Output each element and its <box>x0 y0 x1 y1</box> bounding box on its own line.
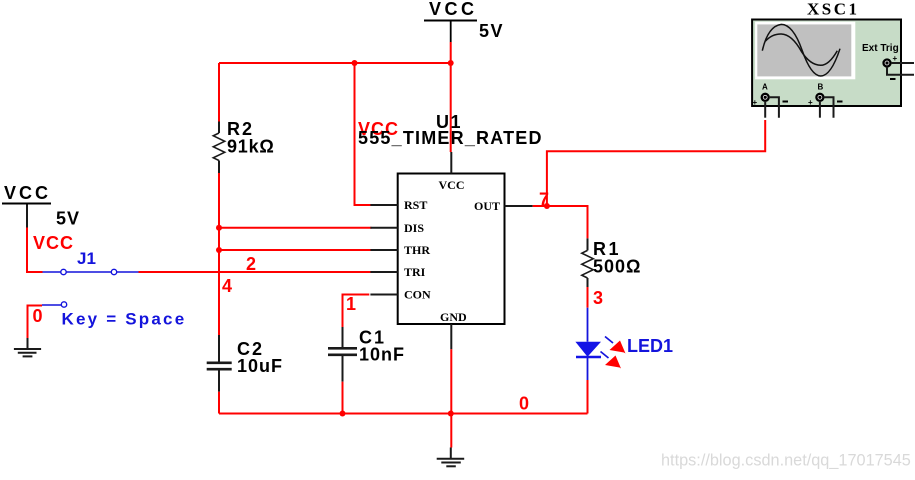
wire U1 GND pin <box>450 349 452 447</box>
svg-text:Key = Space: Key = Space <box>62 310 187 329</box>
LED LED1 <box>575 308 673 380</box>
svg-text:500Ω: 500Ω <box>593 257 641 277</box>
terminal Ext Trig <box>884 60 891 67</box>
svg-text:1: 1 <box>346 294 356 314</box>
resistor R2 <box>213 63 274 173</box>
svg-text:0: 0 <box>519 394 529 414</box>
node junction OUT/scope <box>544 203 550 209</box>
wire vertical to C2 <box>218 228 220 335</box>
svg-text:DIS: DIS <box>404 221 424 235</box>
svg-text:RST: RST <box>404 198 427 212</box>
wire RST net 4 <box>355 63 372 205</box>
svg-text:5V: 5V <box>479 21 504 41</box>
svg-text:4: 4 <box>222 276 232 296</box>
wire R1 bottom net 3 <box>587 287 589 308</box>
svg-text:B: B <box>818 83 824 92</box>
wire CON net 1 <box>343 295 370 328</box>
terminal B <box>816 94 823 101</box>
power VCC top <box>424 0 504 42</box>
node junction THR <box>216 247 222 253</box>
node junction GND/net0 <box>448 411 454 417</box>
wire VCC stem red <box>450 42 452 63</box>
svg-text:VCC: VCC <box>439 178 465 192</box>
svg-text:555_TIMER_RATED: 555_TIMER_RATED <box>358 128 543 148</box>
svg-text:GND: GND <box>440 310 467 324</box>
svg-text:91kΩ: 91kΩ <box>227 137 275 157</box>
svg-text:OUT: OUT <box>474 199 500 213</box>
svg-text:LED1: LED1 <box>627 336 673 356</box>
svg-text:J1: J1 <box>77 249 96 268</box>
svg-text:https://blog.csdn.net/qq_17017: https://blog.csdn.net/qq_17017545 <box>661 452 911 470</box>
wire VCC horizontal to R2 <box>219 62 451 64</box>
svg-text:5V: 5V <box>56 209 80 229</box>
wire net 0 to ground left <box>28 306 43 339</box>
svg-text:+: + <box>893 54 898 63</box>
svg-text:XSC1: XSC1 <box>807 0 860 19</box>
wire bottom net 0 <box>219 413 588 415</box>
capacitor C1 <box>328 327 405 382</box>
svg-text:VCC: VCC <box>4 183 51 203</box>
node junction C1/net0 <box>340 411 346 417</box>
svg-text:A: A <box>762 83 768 92</box>
wire DIS <box>219 227 372 229</box>
node junction VCC/RST <box>352 60 358 66</box>
wire OUT net 7 <box>533 206 588 238</box>
svg-text:2: 2 <box>246 254 256 274</box>
svg-text:TRI: TRI <box>404 265 426 279</box>
wire TRI net 2 <box>139 271 373 273</box>
power VCC left <box>2 183 80 229</box>
svg-text:CON: CON <box>404 288 431 302</box>
svg-text:THR: THR <box>404 243 430 257</box>
svg-text:10uF: 10uF <box>237 356 283 376</box>
oscilloscope XSC1 <box>752 0 914 118</box>
switch J1 <box>42 249 186 329</box>
svg-text:VCC: VCC <box>33 233 74 253</box>
ground center <box>437 448 465 467</box>
wire C1 bottom <box>342 382 344 414</box>
node junction VCC/U1 <box>448 60 454 66</box>
op IC U1 555 timer <box>358 112 543 349</box>
wire scope channel A <box>547 120 765 206</box>
wire VCC down to U1 pin <box>450 63 452 152</box>
wire LED bottom <box>587 380 589 414</box>
svg-text:Ext Trig: Ext Trig <box>862 43 899 54</box>
svg-text:+: + <box>808 98 813 107</box>
svg-text:0: 0 <box>33 306 43 326</box>
terminal A <box>762 94 769 101</box>
svg-text:+: + <box>753 98 758 107</box>
wire VCC left down <box>27 228 43 273</box>
svg-text:VCC: VCC <box>429 0 478 19</box>
node junction DIS <box>216 225 222 231</box>
svg-text:10nF: 10nF <box>359 345 405 365</box>
svg-text:3: 3 <box>593 288 603 308</box>
wire R2 bottom <box>218 173 220 228</box>
wire C2 bottom <box>218 392 220 414</box>
wire THR <box>219 249 372 251</box>
ground left <box>14 338 41 356</box>
resistor R1 <box>582 238 642 287</box>
capacitor C2 <box>207 335 283 392</box>
